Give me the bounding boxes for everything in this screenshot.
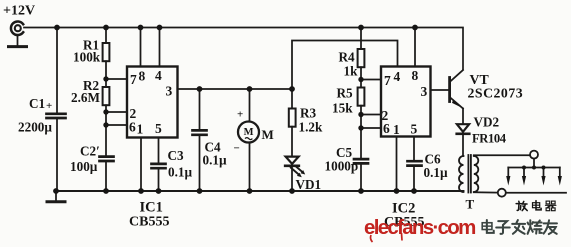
svg-text:0.1µ: 0.1µ — [424, 165, 448, 180]
capacitor C4 0.1u — [193, 130, 207, 134]
svg-text:+: + — [46, 100, 52, 112]
wire R5 to C5 — [360, 106, 362, 159]
svg-text:1k: 1k — [344, 64, 359, 79]
wire motor column top — [249, 89, 251, 122]
discharge electrode bar — [508, 167, 560, 169]
svg-text:R5: R5 — [337, 86, 354, 101]
wire R1-R2 — [105, 61, 107, 87]
svg-text:6: 6 — [129, 120, 136, 135]
wire VD2 to transformer — [462, 134, 464, 156]
svg-text:+: + — [237, 109, 243, 121]
wire pin7 stub — [106, 78, 127, 80]
wire secondary top — [474, 154, 530, 156]
svg-text:0.1µ: 0.1µ — [203, 153, 227, 168]
ground — [47, 191, 65, 202]
svg-text:1.2k: 1.2k — [299, 120, 323, 135]
svg-text:100k: 100k — [73, 50, 101, 65]
watermark red accent — [371, 235, 373, 242]
svg-text:8: 8 — [412, 68, 419, 83]
svg-text:3: 3 — [166, 84, 173, 99]
wire R3 to VD1 — [291, 127, 293, 157]
op IC1 CB555 box — [127, 67, 178, 138]
svg-text:R4: R4 — [339, 50, 356, 65]
wire IC1 pin8 to rail — [140, 28, 142, 67]
wire IC2 pin3 stub — [431, 89, 449, 91]
svg-text:−: − — [234, 143, 240, 155]
wire R4-R5 — [360, 67, 362, 87]
node terminal bottom — [498, 189, 506, 197]
svg-text:IC1: IC1 — [140, 200, 163, 216]
wire C6 to bus — [413, 166, 415, 191]
svg-text:C3: C3 — [168, 148, 185, 163]
transformer T — [459, 155, 478, 193]
wire C4 column — [199, 89, 201, 130]
wire R2 to C2 — [105, 105, 107, 156]
wire pin2 stub — [106, 111, 127, 113]
diode VD2 FR104 — [457, 124, 470, 134]
svg-text:6: 6 — [383, 121, 390, 136]
LED VD1 — [285, 157, 305, 178]
junction dots discharge bar — [522, 166, 546, 170]
wire secondary bottom — [474, 191, 498, 193]
svg-text:5: 5 — [411, 122, 418, 137]
svg-text:4: 4 — [394, 69, 401, 84]
svg-text:2200µ: 2200µ — [18, 120, 52, 135]
svg-text:5: 5 — [155, 121, 162, 136]
svg-text:M: M — [262, 127, 274, 142]
dian — [533, 201, 542, 210]
wire R1 column — [105, 28, 107, 44]
wire R4 column — [360, 28, 362, 50]
fa — [512, 220, 525, 234]
wire terminal to electrode bar — [533, 159, 535, 168]
junction dots R4R5 column — [358, 77, 363, 131]
wire IC2 pin6 stub — [361, 127, 381, 129]
wire bottom plate — [506, 192, 566, 194]
svg-text:elecfans·com: elecfans·com — [364, 216, 475, 239]
wire VD1 to bus — [291, 166, 293, 191]
svg-text:15k: 15k — [332, 101, 353, 116]
wire IC1 pin5 to C3 — [158, 138, 160, 164]
resistor R3 1.2k — [289, 109, 296, 127]
power input jack J — [9, 21, 27, 46]
op IC2 CB555 box — [381, 67, 431, 137]
resistor R1 100k — [103, 43, 110, 61]
svg-text:100µ: 100µ — [70, 159, 98, 174]
junction dots top rail — [54, 25, 418, 31]
resistor R4 1k — [358, 49, 365, 67]
motor M — [238, 122, 259, 143]
svg-text:C2′: C2′ — [80, 144, 100, 159]
svg-text:7: 7 — [384, 73, 391, 88]
wire R3 column / link to IC2 pin4 — [292, 41, 398, 90]
label fangdianqi (discharger) hand-drawn CJK — [516, 201, 556, 211]
node terminal top — [530, 151, 538, 159]
svg-text:2SC2073: 2SC2073 — [468, 86, 524, 101]
junction dots ground bus — [53, 188, 417, 194]
wire IC1 pin1 to bus — [140, 138, 142, 192]
wire IC2 pin2 stub — [361, 114, 381, 116]
wire motor to bus — [249, 143, 251, 192]
svg-text:CB555: CB555 — [129, 215, 169, 230]
resistor R2 2.6M — [103, 87, 110, 105]
svg-text:3: 3 — [421, 84, 428, 99]
wire IC1 pin4 to rail — [159, 28, 161, 67]
you — [544, 220, 557, 234]
fang — [516, 201, 527, 210]
svg-text:4: 4 — [155, 68, 162, 83]
dian2 — [482, 220, 494, 233]
capacitor C6 0.1u — [408, 161, 422, 165]
svg-text:0.1µ: 0.1µ — [168, 165, 192, 180]
pin labels IC2 — [382, 68, 428, 137]
wire emitter to VD2 — [462, 109, 464, 124]
svg-text:2.6M: 2.6M — [71, 90, 100, 105]
wire C2 to bus — [105, 162, 107, 192]
svg-text:7: 7 — [130, 72, 137, 87]
capacitor C5 1000p — [354, 159, 368, 163]
svg-text:R3: R3 — [300, 106, 317, 121]
+12V supply rail (top) — [24, 28, 463, 70]
svg-text:VD1: VD1 — [296, 177, 322, 192]
shao — [528, 220, 542, 234]
junction dots pin3 net — [197, 86, 295, 92]
qi — [546, 201, 556, 211]
wire C3 to bus — [158, 169, 160, 191]
transistor VT 2SC2073 — [450, 70, 463, 109]
wire IC1 pin3 output net — [178, 88, 293, 90]
junction dots R1R2 column — [103, 76, 108, 127]
svg-text:1: 1 — [393, 122, 400, 137]
electrode needles — [506, 168, 562, 186]
wire pin6 stub — [106, 124, 127, 126]
wire C4 to bus — [199, 135, 201, 191]
capacitor C3 0.1u — [152, 164, 166, 168]
svg-text:+12V: +12V — [3, 4, 35, 19]
svg-text:T: T — [466, 197, 475, 212]
wire IC2 pin7 stub — [361, 79, 381, 81]
ground bus (bottom) — [56, 190, 464, 192]
watermark dianzifashaoyou hand-drawn CJK — [482, 220, 557, 234]
svg-text:M: M — [244, 127, 254, 138]
svg-text:1000p: 1000p — [325, 159, 359, 174]
wire C1 column — [56, 28, 58, 113]
svg-text:C1: C1 — [29, 96, 45, 111]
wire IC2 pin5 to C6 — [413, 137, 415, 161]
wire C5 to bus — [360, 164, 362, 191]
watermark red accent 2 — [401, 233, 404, 241]
svg-text:FR104: FR104 — [472, 132, 507, 146]
capacitor C1 2200u — [47, 114, 66, 118]
svg-text:VD2: VD2 — [474, 115, 500, 130]
wire IC2 pin1 to bus — [396, 137, 398, 192]
wire IC2 pin8 to rail — [414, 28, 416, 67]
pin labels IC1 — [129, 68, 173, 137]
svg-text:8: 8 — [139, 69, 146, 84]
zi — [496, 221, 510, 234]
resistor R5 15k — [358, 88, 365, 106]
svg-text:1: 1 — [137, 122, 144, 137]
capacitor C2 100u — [100, 157, 114, 161]
